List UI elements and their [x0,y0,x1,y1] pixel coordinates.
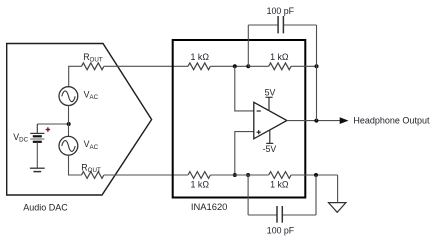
node junction feedback right top [315,64,319,68]
wire to output ground [337,175,339,203]
svg-text:INA1620: INA1620 [191,201,227,212]
wire R4 to ground corner [291,174,338,176]
5V supply tap [266,97,273,111]
ground (output) [329,203,346,213]
node junction feedback tap top [246,64,250,68]
resistor R2 1 kOhm top-right [269,63,291,70]
node junction at VAC midpoint [67,122,71,126]
wire battery to VAC node [37,123,68,125]
wire ROUT bottom to INA box [104,174,188,176]
wire capacitor C2 bottom run [248,175,316,215]
AC source VAC bottom [59,136,78,155]
resistor ROUT top [82,63,104,70]
wire R3 to node bottom [210,174,268,176]
capacitor C1 100 pF top plates [278,16,283,33]
wire node to R2 [248,65,268,67]
svg-text:1 kΩ: 1 kΩ [191,179,210,189]
wire ROUT top to INA box [104,65,188,67]
battery plus sign [46,127,50,131]
wire op-amp output [287,120,340,122]
svg-text:1 kΩ: 1 kΩ [270,179,289,189]
wire VAC top to ROUT corner [69,66,82,86]
op-amp plus sign [257,130,261,134]
output arrow [340,117,349,124]
node junction cap tap bottom [246,173,250,177]
wire non-inverting input [235,132,254,175]
ground (battery) [30,168,45,171]
-5V supply tap [266,130,273,143]
Audio DAC block outline [7,44,152,196]
AC source VAC top [59,87,78,106]
resistor ROUT bottom [82,172,104,179]
svg-text:100 pF: 100 pF [267,6,295,16]
wire inverting input [235,66,254,111]
svg-text:100 pF: 100 pF [267,226,295,236]
node junction inverting tap [233,64,237,68]
svg-text:5V: 5V [265,87,276,97]
wire between VAC sources [68,106,70,137]
node junction noninverting tap bottom [233,173,237,177]
INA1620 box [173,40,306,198]
svg-text:1 kΩ: 1 kΩ [270,52,289,62]
op-amp minus sign [257,110,261,112]
resistor R1 1 kOhm top-left [188,63,210,70]
wire capacitor C1 top run [248,25,316,66]
capacitor C2 100 pF bottom plates [277,206,282,223]
resistor R3 1 kOhm bottom-left [188,172,210,179]
op-amp U1 [254,102,287,139]
node junction output [314,119,318,123]
svg-text:-5V: -5V [263,144,277,154]
svg-text:Audio DAC: Audio DAC [23,203,68,213]
node junction feedback right bottom [314,173,318,177]
wire R1 to node [210,65,248,67]
wire feedback vertical top [316,25,318,121]
svg-text:1 kΩ: 1 kΩ [191,52,210,62]
svg-text:Headphone Output: Headphone Output [353,116,430,126]
wire VAC bottom to ROUT corner [69,155,82,175]
wire R2 to feedback line [291,65,316,67]
battery VDC [30,124,44,168]
resistor R4 1 kOhm bottom-right [269,172,291,179]
